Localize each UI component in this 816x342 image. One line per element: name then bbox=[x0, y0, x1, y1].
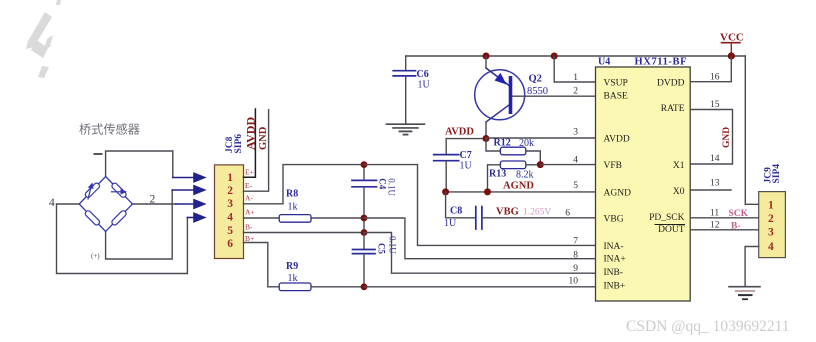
wire pin3 AVDD to IC bbox=[486, 137, 596, 139]
wire bridge top loop bbox=[106, 151, 173, 177]
Q2 emitter wire from rail bbox=[485, 56, 487, 68]
JC8 box bbox=[215, 165, 244, 259]
svg-text:12: 12 bbox=[710, 221, 720, 231]
svg-text:13: 13 bbox=[710, 179, 720, 189]
wire pin11 PD_SCK to JC9 pin2 bbox=[690, 217, 759, 219]
svg-text:INA+: INA+ bbox=[604, 255, 626, 265]
gauge arrow upper-left bbox=[88, 185, 92, 200]
wire R12 out to VFB bbox=[526, 151, 541, 165]
wire pin5 B- to C5 node bbox=[244, 232, 365, 234]
wire pin12 DOUT to JC9 pin3 bbox=[690, 229, 759, 231]
connector JC8 bbox=[215, 109, 365, 287]
wire bridge bottom loop bbox=[106, 190, 173, 259]
U4 right pin numbers bbox=[710, 73, 720, 231]
svg-text:2: 2 bbox=[227, 185, 233, 197]
svg-text:AVDD: AVDD bbox=[604, 135, 630, 145]
svg-text:GND: GND bbox=[258, 126, 269, 150]
svg-text:AVDD: AVDD bbox=[244, 117, 258, 150]
wire JC9 pin4 to ground bbox=[745, 247, 759, 287]
svg-text:R8: R8 bbox=[286, 189, 298, 200]
arrow 1 bbox=[173, 177, 197, 179]
svg-text:1: 1 bbox=[573, 73, 578, 83]
wire VCC rail to JC9 pin1 bbox=[745, 56, 758, 204]
svg-text:8550: 8550 bbox=[527, 86, 548, 97]
wire pin4 A+ to R8 bbox=[244, 217, 280, 219]
svg-text:B+: B+ bbox=[245, 234, 254, 243]
U4 left pin labels bbox=[604, 79, 632, 292]
svg-text:VFB: VFB bbox=[604, 161, 622, 171]
wire VFB to pin4 bbox=[540, 164, 595, 166]
U4 right pin labels bbox=[649, 79, 685, 236]
svg-text:1U: 1U bbox=[418, 80, 431, 91]
svg-text:HX711-BF: HX711-BF bbox=[635, 57, 688, 68]
svg-text:桥式传感器: 桥式传感器 bbox=[79, 122, 140, 137]
ground symbol below C6 bbox=[387, 124, 425, 134]
op-amp U4 HX711-BF main IC bbox=[565, 57, 720, 302]
resistor R12 bbox=[486, 139, 500, 152]
svg-text:6: 6 bbox=[565, 209, 570, 219]
svg-text:C4: C4 bbox=[378, 178, 388, 189]
svg-text:R13: R13 bbox=[489, 169, 506, 180]
svg-text:1: 1 bbox=[768, 199, 774, 211]
svg-text:8.2k: 8.2k bbox=[516, 170, 534, 181]
svg-text:1k: 1k bbox=[288, 202, 298, 213]
wire C5 bottom stem bbox=[363, 254, 365, 287]
junction VCC rail bbox=[728, 52, 735, 59]
svg-text:6: 6 bbox=[227, 238, 233, 250]
Q2 base bar bbox=[509, 76, 513, 114]
svg-text:U4: U4 bbox=[598, 57, 610, 68]
capacitor C6 bbox=[387, 56, 431, 135]
JC8 pin numbers bbox=[227, 172, 233, 250]
wire pin1 riser bbox=[554, 56, 595, 82]
svg-text:INB+: INB+ bbox=[604, 282, 626, 292]
svg-text:Q2: Q2 bbox=[529, 74, 542, 85]
svg-text:2: 2 bbox=[150, 194, 156, 206]
connector JC9 bbox=[729, 164, 785, 299]
svg-text:10: 10 bbox=[569, 277, 579, 287]
svg-text:VSUP: VSUP bbox=[604, 79, 628, 89]
svg-text:5: 5 bbox=[573, 181, 578, 191]
svg-text:B-: B- bbox=[245, 223, 253, 232]
wire bridge left loop (terminal 4) bbox=[57, 204, 188, 274]
junction VFB bbox=[537, 161, 544, 168]
wire INB- route (B- node to pin9) bbox=[364, 233, 596, 274]
JC9 pin numbers bbox=[768, 199, 774, 253]
svg-text:9: 9 bbox=[573, 264, 578, 274]
svg-text:1: 1 bbox=[227, 172, 233, 184]
arrow 4 bbox=[187, 217, 197, 219]
svg-text:INB-: INB- bbox=[604, 268, 624, 278]
JC8 pin net labels bbox=[245, 168, 255, 243]
svg-text:11: 11 bbox=[710, 209, 719, 219]
svg-text:RATE: RATE bbox=[661, 104, 685, 114]
svg-text:AGND: AGND bbox=[604, 189, 632, 199]
wire C6 to ground bbox=[405, 76, 407, 124]
svg-text:4: 4 bbox=[573, 156, 578, 166]
svg-text:B-: B- bbox=[731, 222, 741, 232]
svg-text:AVDD: AVDD bbox=[445, 127, 474, 138]
right side nets bbox=[690, 32, 759, 232]
wire AVDD horizontal bbox=[446, 138, 486, 140]
wire pin6 B+ down to R9 bbox=[244, 243, 280, 287]
svg-text:E+: E+ bbox=[245, 168, 254, 177]
svg-text:X1: X1 bbox=[673, 161, 685, 171]
svg-text:1U: 1U bbox=[460, 161, 473, 172]
resistor R8 bbox=[279, 189, 364, 223]
junction node R9 out bbox=[361, 283, 368, 290]
capacitor C7 bbox=[445, 139, 447, 155]
ground symbol below JC9 bbox=[729, 287, 760, 300]
wire rail corner to C6 bbox=[405, 56, 407, 71]
svg-text:INA-: INA- bbox=[604, 242, 624, 252]
arrow 3 bbox=[176, 203, 197, 205]
wire pin1 stub to AVDD net bbox=[244, 109, 256, 177]
Q2 collector wire to AVDD node bbox=[485, 122, 487, 139]
svg-text:R9: R9 bbox=[286, 261, 298, 272]
wire AGND to pin5 bbox=[444, 191, 596, 193]
svg-text:PD_SCK: PD_SCK bbox=[649, 213, 685, 223]
bridge resistor lower-left bbox=[84, 210, 100, 226]
resistor R9 bbox=[279, 261, 364, 291]
svg-text:SIP6: SIP6 bbox=[234, 134, 244, 154]
wire C4 bottom stem bbox=[363, 187, 365, 233]
wire INA- route (A- node to pin7) bbox=[364, 165, 596, 246]
svg-text:GND: GND bbox=[722, 127, 732, 148]
junction rail / pin1 bbox=[551, 53, 558, 60]
svg-text:VBG: VBG bbox=[604, 215, 624, 225]
svg-text:CSDN @qq_ 1039692211: CSDN @qq_ 1039692211 bbox=[626, 318, 790, 335]
svg-text:C6: C6 bbox=[417, 69, 429, 80]
svg-text:AGND: AGND bbox=[503, 181, 534, 192]
wire C5 top stem bbox=[363, 233, 365, 250]
wire R9 out bbox=[311, 286, 364, 288]
svg-text:R12: R12 bbox=[494, 138, 511, 149]
junction R13/AGND bbox=[484, 188, 491, 195]
svg-text:0.1U: 0.1U bbox=[388, 236, 398, 254]
wire INB+ route (R9 node to pin10) bbox=[364, 286, 596, 288]
transistor Q2 bbox=[475, 56, 596, 139]
bridge resistor upper-left bbox=[84, 182, 100, 198]
svg-text:15: 15 bbox=[710, 100, 720, 110]
svg-text:VCC: VCC bbox=[720, 32, 744, 44]
watermark swoosh top-left bbox=[26, 0, 61, 78]
junction node A- / C4 bbox=[361, 161, 368, 168]
svg-text:A-: A- bbox=[245, 194, 253, 203]
svg-text:A+: A+ bbox=[245, 208, 255, 217]
svg-text:C5: C5 bbox=[377, 243, 387, 254]
wire pin16 to VCC bbox=[690, 56, 731, 82]
capacitor C4 bbox=[352, 179, 377, 181]
svg-text:2: 2 bbox=[768, 213, 774, 225]
wire pin2 stub to GND net bbox=[244, 110, 269, 192]
svg-text:DOUT: DOUT bbox=[658, 225, 685, 235]
svg-text:4: 4 bbox=[768, 241, 774, 253]
svg-text:4: 4 bbox=[49, 197, 55, 209]
AVDD node block bbox=[434, 127, 596, 230]
U4 box bbox=[596, 67, 691, 301]
svg-text:BASE: BASE bbox=[604, 92, 628, 102]
svg-text:1U: 1U bbox=[444, 218, 457, 229]
svg-text:C7: C7 bbox=[460, 150, 472, 161]
DOUT overline bbox=[655, 224, 685, 226]
svg-text:14: 14 bbox=[710, 154, 720, 164]
svg-text:(+): (+) bbox=[91, 252, 100, 260]
svg-text:SCK: SCK bbox=[729, 209, 749, 219]
JC9 box bbox=[759, 192, 786, 258]
svg-text:20k: 20k bbox=[519, 138, 534, 149]
wire pin3 A- up and right bbox=[244, 165, 365, 204]
bridge resistor upper-right bbox=[111, 182, 127, 198]
wire C4 top stem bbox=[363, 165, 365, 180]
junction node B- bbox=[361, 229, 368, 236]
bridge diamond sides bbox=[79, 177, 132, 232]
wire pin13 X0 stub bbox=[690, 189, 731, 191]
capacitor C8 bbox=[446, 192, 476, 218]
junction AVDD bbox=[483, 135, 490, 142]
U4 left pin numbers bbox=[565, 73, 578, 287]
bridge resistor lower-right bbox=[111, 210, 127, 226]
mid filter column C4 C5 bbox=[352, 161, 596, 290]
arrow 2 bbox=[172, 189, 197, 191]
signal arrows into JC8 bbox=[172, 173, 204, 221]
Q2 base wire to pin2 bbox=[512, 95, 595, 97]
svg-text:3: 3 bbox=[573, 128, 578, 138]
svg-text:C8: C8 bbox=[450, 206, 462, 217]
svg-text:DVDD: DVDD bbox=[657, 79, 685, 89]
svg-text:4: 4 bbox=[227, 212, 233, 224]
svg-text:3: 3 bbox=[227, 198, 233, 210]
wire arrow1 riser bbox=[172, 151, 174, 178]
wire bridge right (terminal 2) bbox=[133, 203, 177, 205]
mark minus top bbox=[94, 153, 103, 155]
svg-text:3: 3 bbox=[768, 227, 774, 239]
svg-text:7: 7 bbox=[573, 237, 578, 247]
svg-text:2: 2 bbox=[573, 87, 578, 97]
VCC top rail bbox=[406, 55, 746, 57]
svg-text:SIP4: SIP4 bbox=[772, 164, 782, 184]
junction node R8 out bbox=[361, 215, 368, 222]
bridge sensor group bbox=[49, 151, 187, 274]
wire C8 to pin6 bbox=[482, 217, 596, 219]
wire R8 out bbox=[311, 217, 364, 219]
svg-text:5: 5 bbox=[227, 225, 233, 237]
wire INA+ route (R8 node to pin8) bbox=[364, 218, 596, 259]
gauge arrow upper-right bbox=[112, 191, 123, 193]
junction rail / Q2 bbox=[483, 53, 490, 60]
svg-text:VBG: VBG bbox=[496, 207, 519, 218]
svg-text:1.265V: 1.265V bbox=[523, 208, 551, 218]
resistor R13 bbox=[500, 161, 525, 169]
Q2 collector diagonal bbox=[486, 105, 509, 122]
svg-text:E-: E- bbox=[245, 181, 253, 190]
capacitor C5 bbox=[353, 249, 376, 251]
wire pin15 RATE to GND link bbox=[690, 110, 732, 165]
svg-text:X0: X0 bbox=[673, 187, 685, 197]
junction C7/AGND bbox=[442, 188, 449, 195]
svg-text:0.1U: 0.1U bbox=[386, 178, 396, 196]
svg-text:8: 8 bbox=[573, 251, 578, 261]
svg-text:1k: 1k bbox=[288, 273, 298, 284]
Q2 emitter arrow (PNP) bbox=[495, 73, 507, 85]
